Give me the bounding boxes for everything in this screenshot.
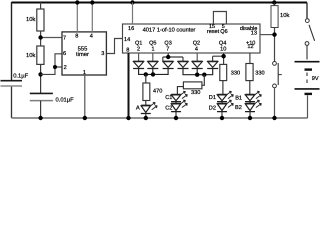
svg-text:D1: D1 (209, 95, 216, 101)
svg-text:1: 1 (151, 47, 154, 53)
svg-text:14: 14 (124, 37, 130, 43)
svg-text:9V: 9V (312, 76, 319, 82)
svg-text:timer: timer (76, 51, 89, 58)
svg-text:C1: C1 (165, 95, 172, 101)
svg-text:2: 2 (64, 65, 67, 71)
svg-text:12: 12 (247, 44, 253, 50)
svg-text:13: 13 (251, 30, 257, 36)
svg-text:Q6: Q6 (220, 29, 227, 35)
svg-text:4017 1-of-10 counter: 4017 1-of-10 counter (143, 27, 196, 34)
svg-text:10k: 10k (26, 52, 35, 59)
svg-text:16: 16 (128, 26, 134, 32)
svg-text:4: 4 (90, 33, 93, 39)
svg-text:7: 7 (166, 47, 169, 53)
svg-text:B1: B1 (235, 95, 242, 101)
svg-text:330: 330 (231, 71, 240, 77)
svg-text:6: 6 (63, 51, 66, 57)
svg-text:10k: 10k (26, 16, 35, 23)
svg-text:reset: reset (207, 29, 220, 35)
svg-text:8: 8 (126, 47, 129, 53)
svg-text:0.1µF: 0.1µF (13, 73, 28, 80)
svg-text:7: 7 (63, 36, 66, 42)
svg-text:A: A (136, 106, 140, 112)
svg-text:C2: C2 (165, 105, 172, 111)
svg-text:470: 470 (153, 88, 162, 94)
svg-text:8: 8 (75, 33, 78, 39)
svg-text:330: 330 (191, 90, 200, 96)
svg-text:D2: D2 (209, 105, 216, 111)
svg-text:2: 2 (137, 47, 140, 53)
svg-text:0.01µF: 0.01µF (56, 96, 75, 103)
svg-text:4: 4 (195, 47, 198, 53)
svg-text:10: 10 (220, 47, 226, 53)
svg-text:B2: B2 (235, 105, 242, 111)
svg-text:10k: 10k (280, 12, 289, 19)
svg-text:330: 330 (255, 71, 264, 77)
svg-text:3: 3 (101, 51, 104, 57)
